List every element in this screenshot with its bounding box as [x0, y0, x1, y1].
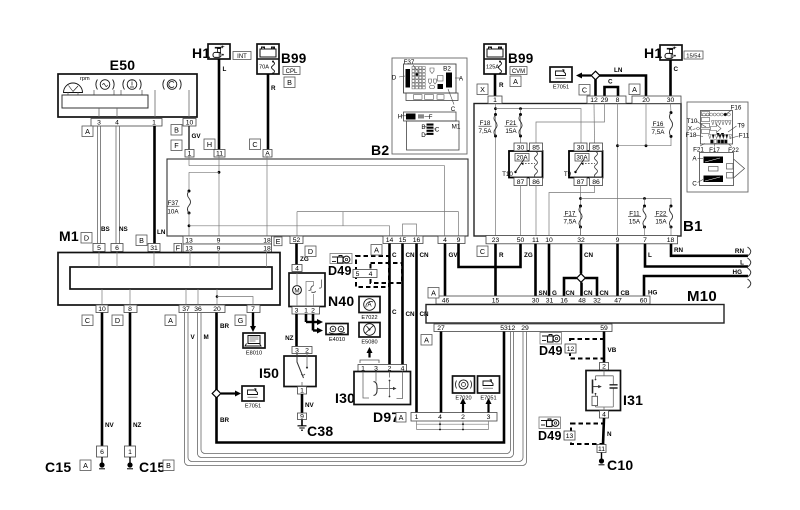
- svg-text:M: M: [294, 288, 299, 295]
- junction: [188, 224, 191, 227]
- M1 inner connector strip: [70, 267, 272, 289]
- svg-text:15/54: 15/54: [686, 54, 701, 60]
- B2 internal pin11 to pin9: [218, 156, 220, 237]
- svg-text:D97: D97: [373, 409, 399, 425]
- label A: [165, 315, 176, 326]
- junction: [216, 295, 219, 298]
- svg-text:1: 1: [128, 449, 132, 456]
- svg-text:A: A: [424, 335, 429, 344]
- svg-text:rpm: rpm: [80, 76, 90, 82]
- B2 internal to pin52: [296, 212, 298, 236]
- svg-text:70A: 70A: [259, 65, 269, 71]
- svg-text:2: 2: [305, 347, 309, 354]
- B1 internal T10-86 to pin11: [535, 186, 537, 237]
- arrow N40-2 to E4010: [313, 328, 323, 334]
- svg-text:3: 3: [295, 347, 299, 354]
- M1 internal pin36: [197, 289, 199, 305]
- label A: [371, 245, 382, 256]
- brake warning unit E7020: [453, 376, 475, 402]
- svg-text:18: 18: [667, 237, 675, 244]
- M1 internal pin18: [266, 252, 268, 267]
- svg-text:1: 1: [300, 388, 304, 395]
- wire G B1-10 to M10-31: [548, 244, 551, 297]
- svg-text:13: 13: [185, 237, 193, 244]
- svg-text:F: F: [174, 141, 179, 150]
- B1 internal F22 to pin18: [670, 227, 672, 236]
- svg-text:C: C: [582, 85, 587, 94]
- B2 pins 4 9: [438, 236, 465, 244]
- svg-text:15: 15: [399, 237, 407, 244]
- M1 internal pin8: [129, 289, 131, 305]
- E50 pins 3 4 1: [91, 119, 162, 127]
- svg-text:9: 9: [616, 237, 620, 244]
- label F: [174, 243, 182, 252]
- D49 pin 13: [564, 431, 575, 440]
- B2 bottom pins 13 9 18: [183, 236, 272, 244]
- svg-text:10: 10: [98, 306, 106, 313]
- M1 pin 6: [111, 244, 123, 252]
- M1 pin 31: [148, 244, 160, 252]
- wire ZG B1-50 to B2-9: [459, 244, 521, 268]
- splice junction CN: [577, 274, 586, 283]
- svg-text:59: 59: [600, 325, 608, 332]
- ground C10: [599, 453, 605, 465]
- wire NS pair: [119, 126, 121, 244]
- B1 internal T9-86 to pin10: [549, 186, 595, 237]
- D49 dashed connector outline: [571, 424, 604, 445]
- svg-text:C38: C38: [307, 423, 333, 439]
- B2 internal pinA to pin18: [266, 156, 268, 237]
- svg-text:11: 11: [598, 446, 605, 453]
- label A: [428, 288, 439, 299]
- svg-text:125A: 125A: [486, 65, 499, 71]
- svg-text:VB: VB: [608, 347, 617, 354]
- headlamp aligner E4010: [326, 324, 348, 344]
- label F: [171, 140, 182, 151]
- svg-text:50: 50: [517, 237, 525, 244]
- svg-text:85: 85: [592, 144, 600, 151]
- svg-text:32: 32: [593, 297, 601, 304]
- svg-text:BR: BR: [220, 323, 230, 330]
- wire CN branch to M10-32: [585, 278, 597, 296]
- svg-text:13: 13: [566, 433, 574, 440]
- D49 dashed connector outline 2: [371, 263, 403, 283]
- D49 pins 5 4: [353, 270, 377, 278]
- fuel pump unit N40: [289, 273, 325, 307]
- svg-text:5: 5: [356, 271, 360, 278]
- wire C H1-right to B1-30: [669, 60, 672, 96]
- svg-text:14: 14: [386, 237, 394, 244]
- svg-text:16: 16: [413, 237, 421, 244]
- svg-text:E: E: [276, 237, 281, 246]
- svg-text:15A: 15A: [655, 219, 667, 226]
- junction: [494, 107, 497, 110]
- svg-text:T9: T9: [737, 123, 745, 130]
- svg-text:30: 30: [517, 144, 525, 151]
- B2 pin 52: [290, 236, 303, 244]
- junction: [643, 197, 646, 200]
- svg-text:86: 86: [532, 179, 540, 186]
- B1 pins 12 29 8: [587, 96, 626, 104]
- svg-text:A: A: [85, 127, 90, 136]
- wire L B1-7 to right: [645, 244, 748, 267]
- label CPL: [283, 67, 300, 76]
- svg-text:B: B: [287, 78, 292, 87]
- D97 pigtail comb: [417, 421, 489, 430]
- svg-text:13: 13: [185, 245, 193, 252]
- wire CN branch to M10-16: [564, 278, 577, 296]
- M10 top pins: [436, 296, 650, 304]
- svg-text:6: 6: [115, 245, 119, 252]
- label E: [274, 237, 282, 246]
- svg-text:1: 1: [493, 97, 497, 104]
- B2 pin A: [263, 150, 272, 158]
- svg-text:C10: C10: [607, 457, 633, 473]
- svg-text:4: 4: [443, 237, 447, 244]
- label F17: [564, 211, 578, 226]
- B2 internal link pins 15-16: [403, 224, 417, 236]
- svg-text:E5080: E5080: [361, 340, 377, 346]
- svg-text:D: D: [308, 247, 313, 256]
- svg-text:10A: 10A: [167, 209, 179, 216]
- label D: [305, 246, 316, 257]
- wire LN to B1-20: [600, 76, 647, 97]
- B2 internal to fuse F37: [188, 172, 190, 191]
- svg-text:A: A: [632, 85, 637, 94]
- wire NV I50-1 to ground: [301, 394, 304, 413]
- wire NV M1-10 to ground C15: [101, 313, 104, 447]
- label D: [81, 233, 92, 244]
- bracket over I30 pins 1-3: [360, 360, 379, 363]
- svg-text:23: 23: [492, 237, 500, 244]
- wire BS E50-3 to M1-5 (pair): [97, 126, 99, 244]
- electronic unit E7051 (left): [242, 386, 264, 410]
- svg-text:C: C: [674, 66, 679, 73]
- svg-text:16: 16: [560, 297, 568, 304]
- ground pin 11: [597, 445, 606, 453]
- M1 pin 5: [93, 244, 105, 252]
- M1 internal pin31: [153, 252, 155, 268]
- M1 internal pin10: [101, 289, 103, 305]
- ground C15b: [127, 457, 133, 469]
- svg-text:87: 87: [577, 179, 585, 186]
- svg-text:4: 4: [295, 265, 299, 272]
- B2 internal rail to pin14: [189, 226, 390, 236]
- svg-text:C: C: [392, 309, 397, 316]
- battery B99 (centre) with 125A fuse: [484, 44, 534, 75]
- M1 internal pin13: [189, 252, 191, 268]
- svg-text:1: 1: [152, 120, 156, 127]
- svg-text:2: 2: [461, 414, 465, 421]
- B1 internal pin1 to pin23: [495, 104, 497, 237]
- wire GV B2-4 to M10-46: [444, 244, 447, 297]
- wire BS pair: [100, 126, 102, 244]
- svg-text:7: 7: [251, 306, 255, 313]
- svg-text:9: 9: [217, 237, 221, 244]
- svg-text:11: 11: [532, 237, 539, 244]
- relay T10 20A: [502, 151, 542, 178]
- svg-text:CN: CN: [420, 311, 430, 318]
- svg-text:C: C: [435, 127, 440, 134]
- svg-text:52: 52: [293, 237, 301, 244]
- svg-text:7: 7: [643, 237, 647, 244]
- svg-text:L: L: [223, 66, 227, 73]
- svg-text:C: C: [692, 181, 697, 188]
- svg-text:7,5A: 7,5A: [652, 129, 666, 136]
- svg-text:87: 87: [517, 179, 525, 186]
- svg-text:30: 30: [667, 97, 675, 104]
- svg-text:10: 10: [545, 237, 553, 244]
- svg-text:11: 11: [216, 151, 223, 158]
- I50 pin 1: [298, 387, 307, 395]
- wire VB M10-59 to I31-2: [603, 332, 606, 363]
- svg-text:46: 46: [442, 297, 450, 304]
- wire to B1-12: [594, 80, 597, 97]
- inset detail box F37 fusebox location: [392, 58, 467, 154]
- wire C B2-14 to I30-2: [388, 244, 391, 365]
- svg-text:H: H: [398, 114, 403, 121]
- svg-text:T10: T10: [502, 171, 513, 178]
- I30 pins 1 3 2 4: [358, 365, 407, 373]
- label B: [163, 460, 174, 471]
- svg-text:9: 9: [457, 237, 461, 244]
- svg-text:E7022: E7022: [361, 315, 377, 321]
- svg-text:I50: I50: [259, 365, 279, 381]
- svg-text:INT: INT: [237, 54, 247, 60]
- svg-text:20: 20: [642, 97, 650, 104]
- svg-text:R: R: [499, 252, 504, 259]
- svg-text:18: 18: [263, 237, 271, 244]
- svg-text:7,5A: 7,5A: [479, 128, 493, 135]
- svg-text:E4010: E4010: [329, 337, 345, 343]
- wire CN B2-15 to I30-4: [401, 244, 404, 365]
- label C: [250, 139, 261, 150]
- svg-text:BR: BR: [220, 417, 230, 424]
- wire M10-27 to D97-4: [440, 332, 443, 413]
- wire R B99-centre to B1-1: [494, 74, 497, 96]
- B1 pins 20 30: [632, 96, 681, 104]
- inset detail box F16 fusebox location: [686, 102, 750, 192]
- label H: [204, 139, 215, 150]
- svg-text:48: 48: [578, 297, 586, 304]
- svg-text:I31: I31: [623, 392, 643, 408]
- svg-text:3: 3: [487, 414, 491, 421]
- junction: [579, 197, 582, 200]
- wire GV E50-10 to B2-1: [188, 126, 190, 150]
- svg-text:A: A: [431, 288, 436, 297]
- label F11: [628, 211, 641, 226]
- svg-text:CN: CN: [406, 252, 416, 259]
- svg-text:10: 10: [186, 120, 194, 127]
- svg-text:8: 8: [128, 306, 132, 313]
- M1 pins 37 36 20: [179, 305, 225, 313]
- fuse F21 15A: [519, 113, 522, 138]
- svg-text:R: R: [499, 82, 504, 89]
- instrument cluster E50: [58, 57, 197, 117]
- svg-text:CN: CN: [420, 252, 430, 259]
- svg-text:C: C: [85, 316, 90, 325]
- B1 internal pin29 to T10-85: [536, 104, 605, 144]
- B1 internal node rail: [618, 136, 672, 145]
- svg-text:CN: CN: [584, 252, 594, 259]
- svg-text:C15: C15: [45, 459, 71, 475]
- fuse F22 15A: [669, 205, 672, 229]
- wire NZ M1-8 to ground C15: [129, 313, 132, 447]
- svg-text:E8010: E8010: [246, 351, 262, 357]
- svg-text:A: A: [513, 77, 518, 86]
- B1 internal pin20 drop: [645, 104, 647, 146]
- label A: [510, 76, 521, 87]
- svg-text:4: 4: [115, 120, 119, 127]
- svg-text:1: 1: [304, 308, 308, 315]
- wire R B1-23 to M10-15: [494, 244, 497, 297]
- svg-text:F: F: [176, 243, 181, 252]
- label C: [82, 315, 93, 326]
- svg-text:4: 4: [369, 271, 373, 278]
- arrow I30 to E5080: [367, 347, 373, 358]
- svg-text:3: 3: [97, 120, 101, 127]
- svg-text:GV: GV: [449, 252, 459, 259]
- H1 lamp icon box: [208, 44, 230, 59]
- label F21: [505, 120, 518, 135]
- arrow to E7051: [576, 73, 591, 79]
- D97 pins 1 4 2 3: [411, 413, 497, 422]
- wire NS E50-4 to M1-6 (pair): [115, 126, 117, 244]
- wire RN B1-18 to right: [671, 244, 748, 256]
- label 15/54: [684, 51, 703, 60]
- jumper C between B1-29 and B1-8: [605, 87, 619, 96]
- svg-text:D: D: [84, 233, 89, 242]
- svg-text:F: F: [429, 114, 433, 121]
- svg-text:HG: HG: [648, 290, 658, 297]
- svg-text:NS: NS: [119, 226, 128, 233]
- svg-text:M: M: [204, 334, 209, 341]
- label INT: [233, 52, 251, 61]
- svg-text:RN: RN: [674, 247, 684, 254]
- svg-text:B: B: [421, 124, 425, 131]
- svg-text:NV: NV: [305, 402, 315, 409]
- svg-text:N40: N40: [328, 293, 354, 309]
- fuse and relay box B1: [474, 104, 681, 237]
- svg-text:36: 36: [194, 306, 202, 313]
- B2 internal riser: [342, 212, 344, 226]
- label C: [579, 85, 590, 96]
- M1 box: [58, 253, 280, 306]
- svg-text:B99: B99: [281, 51, 307, 66]
- svg-text:D: D: [392, 75, 397, 82]
- B1 internal feed rail: [496, 109, 582, 143]
- electronic unit E7051: [478, 376, 500, 402]
- svg-text:F18: F18: [686, 132, 697, 139]
- D49 pin 12: [565, 344, 576, 353]
- body computer B2 box: [167, 159, 468, 236]
- ground pin 6: [97, 446, 108, 457]
- junction: [645, 144, 648, 147]
- svg-text:1: 1: [415, 414, 419, 421]
- fuse F37 10A in B2: [187, 190, 190, 215]
- arrow D97-2 to E7020: [460, 398, 466, 413]
- svg-text:ZG: ZG: [300, 256, 309, 263]
- svg-text:85: 85: [532, 144, 540, 151]
- svg-text:X: X: [480, 85, 485, 94]
- svg-text:30A: 30A: [576, 155, 588, 162]
- M10 bottom pins: [434, 324, 612, 332]
- I31 pin 2: [600, 363, 609, 371]
- B2 pins 14 15 16: [383, 236, 423, 244]
- svg-text:C: C: [608, 79, 613, 86]
- svg-text:12: 12: [508, 325, 516, 332]
- B1 internal pin8 to pin9: [617, 104, 619, 237]
- svg-text:M1: M1: [59, 228, 79, 244]
- svg-text:HG: HG: [733, 269, 743, 276]
- svg-text:LN: LN: [157, 229, 166, 236]
- arrow to E7051: [221, 391, 241, 397]
- N40 pin 4: [292, 265, 302, 273]
- svg-text:4: 4: [602, 412, 606, 419]
- battery B99 (left) with 70A fuse: [257, 44, 307, 75]
- fuse F18 7.5A: [494, 113, 497, 138]
- svg-text:B: B: [166, 461, 171, 470]
- label A: [80, 460, 91, 471]
- electronic unit E7051 (top): [550, 67, 572, 91]
- label B: [136, 235, 147, 246]
- svg-text:5: 5: [97, 245, 101, 252]
- svg-text:37: 37: [182, 306, 190, 313]
- relay T9 30A: [564, 151, 603, 178]
- B2 internal rail pin1 to pin4: [189, 166, 445, 236]
- svg-text:C: C: [392, 252, 397, 259]
- label A: [421, 335, 432, 346]
- wire NZ N40-3 to I50-3: [295, 314, 298, 347]
- svg-text:F11: F11: [739, 133, 750, 140]
- M1 pin 10: [96, 305, 108, 313]
- svg-text:9: 9: [217, 245, 221, 252]
- svg-text:15A: 15A: [505, 128, 517, 135]
- wire HG from right to M10-60: [644, 276, 748, 296]
- B1 internal T9-87 to pin32: [580, 186, 582, 237]
- B1 internal pin12 to T9-85: [593, 104, 596, 144]
- arrow D97-3 to E7051: [486, 398, 492, 413]
- svg-text:BS: BS: [101, 226, 110, 233]
- svg-text:CVM: CVM: [512, 69, 525, 75]
- wire R B99 to B2-A: [267, 74, 270, 150]
- B2 internal rail to pin9: [297, 211, 459, 213]
- M1 pin 8: [124, 305, 137, 313]
- label C: [477, 246, 488, 257]
- svg-text:C: C: [252, 140, 257, 149]
- label D: [112, 315, 123, 326]
- B2 internal pin1 stub: [188, 156, 190, 166]
- label A: [629, 84, 640, 95]
- svg-text:A: A: [399, 413, 404, 422]
- svg-text:C: C: [480, 247, 485, 256]
- svg-text:ZG: ZG: [524, 252, 533, 259]
- label X: [477, 84, 488, 95]
- wire CN B2-16 to D97-1: [415, 244, 418, 413]
- svg-text:D: D: [421, 132, 426, 139]
- fuse F37 label: [167, 200, 180, 216]
- svg-text:31: 31: [546, 297, 554, 304]
- E50 pin 10: [183, 119, 196, 127]
- B1 internal to F11: [644, 199, 646, 207]
- arrow M1-7 to E8010: [250, 313, 256, 333]
- B1 internal F17 to pin32: [580, 227, 582, 236]
- svg-text:CN: CN: [406, 311, 416, 318]
- B2 internal branch: [189, 171, 219, 173]
- junction: [218, 171, 221, 174]
- svg-text:N: N: [607, 431, 612, 438]
- svg-text:E7051: E7051: [245, 404, 261, 410]
